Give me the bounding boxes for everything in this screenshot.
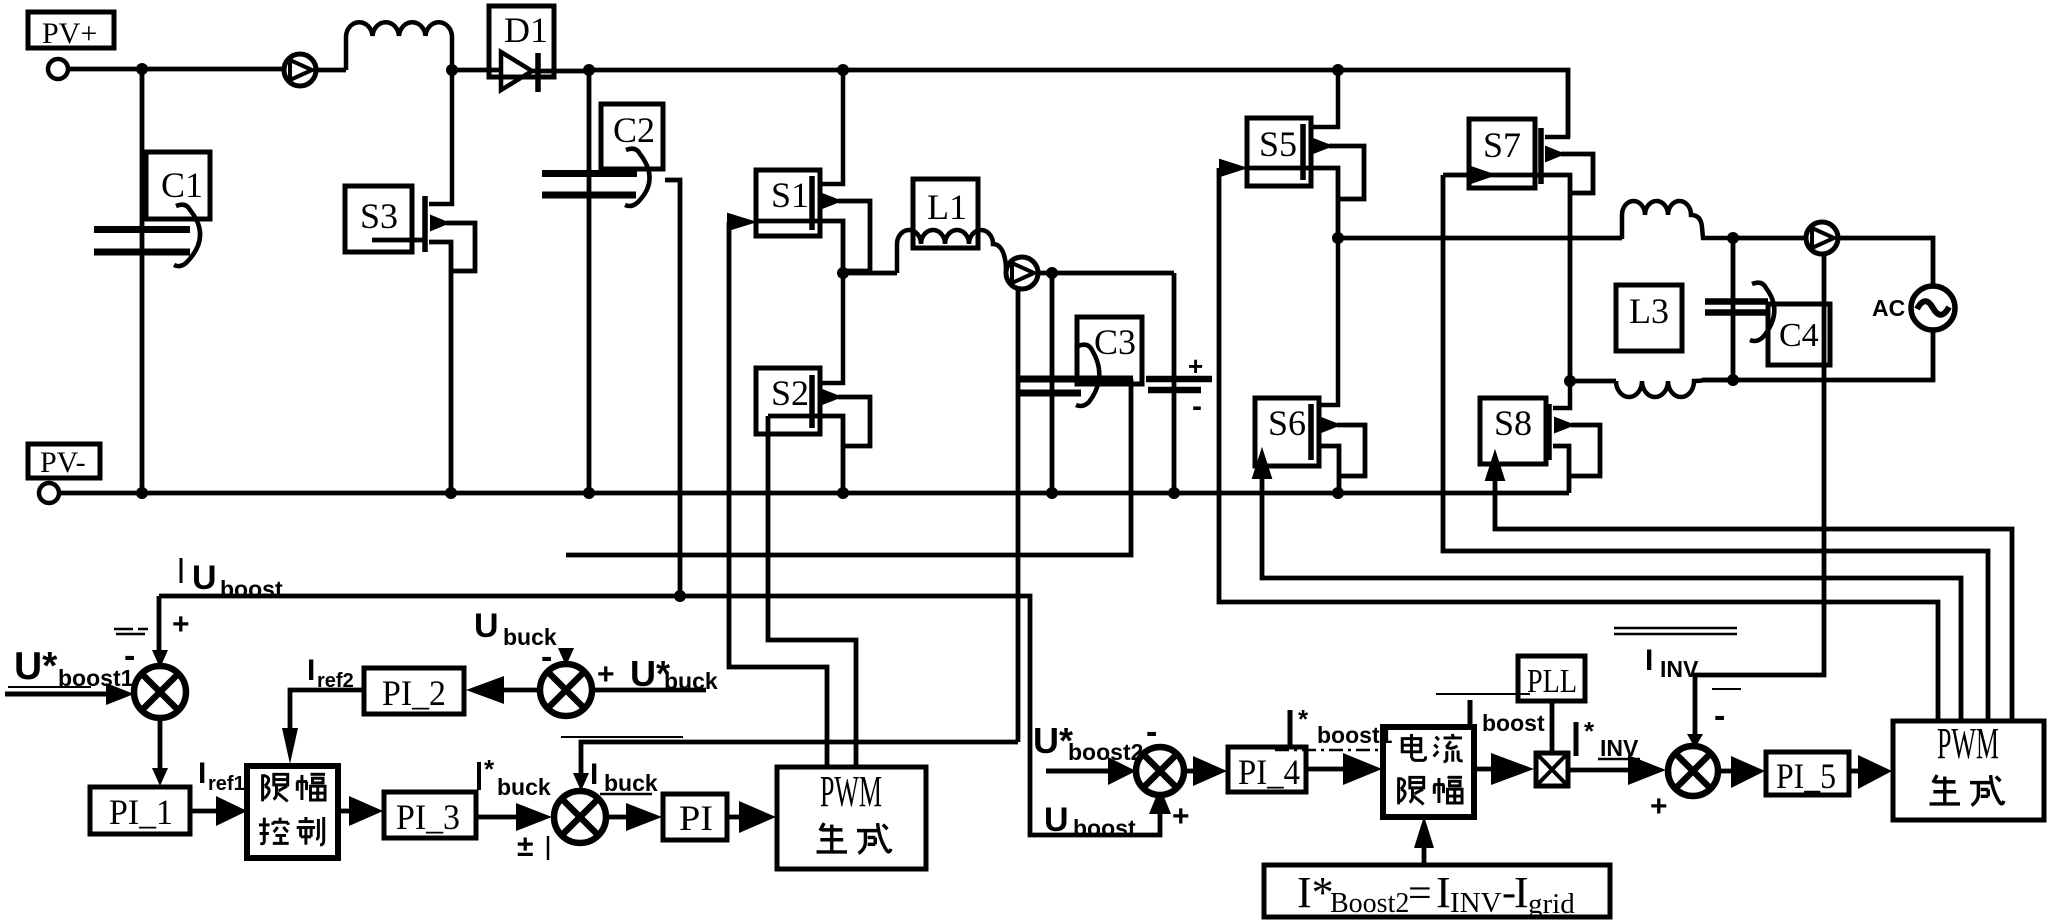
svg-text:PI_4: PI_4 (1238, 752, 1300, 792)
summing junction sum1 (134, 666, 186, 718)
arrow into PWM2 (1858, 755, 1892, 789)
label box D1 (489, 6, 554, 77)
svg-text:grid: grid (1528, 888, 1575, 920)
label U*_boost1 (8, 645, 134, 691)
wire top rail node C to S1 leg (589, 68, 843, 73)
label U*_buck (630, 653, 718, 694)
block PWM1 generator (777, 767, 926, 869)
noise dashes above sum1 (114, 629, 148, 634)
arrow into current limiter (1343, 753, 1382, 785)
wire PLL to multiplier (1550, 701, 1555, 753)
label box C3 (1077, 317, 1142, 384)
arrow into limiter top (282, 728, 298, 764)
noise line above I_buck wire (561, 736, 683, 738)
svg-text:PV+: PV+ (42, 17, 97, 50)
gate wire of S2 to PWM (768, 416, 856, 767)
svg-text:PI: PI (679, 798, 713, 838)
wire top rail to S7 leg corner (1338, 70, 1568, 137)
wire sum3 to PI (606, 815, 628, 820)
svg-text:=: = (1408, 871, 1432, 917)
wire PI to PWM1 (727, 815, 740, 820)
wire CT3 to AC corner (1838, 238, 1933, 286)
label box C4 (1768, 304, 1830, 365)
svg-text:-: - (1192, 390, 1202, 423)
label I_ref1 (198, 757, 245, 795)
multiplier box (1536, 753, 1568, 786)
block PI_4 (1228, 747, 1306, 792)
wire sum4 to PI_4 (1184, 769, 1196, 774)
transistor S2 (812, 273, 870, 493)
svg-text:+: + (1188, 351, 1203, 381)
node A junction dot (136, 63, 148, 75)
arrow into sum5 (1628, 755, 1666, 785)
svg-text:I: I (1645, 644, 1653, 677)
transistor S5 (1303, 70, 1364, 238)
wire current limiter to multiplier (1474, 767, 1492, 772)
summing junction sum5 (1668, 746, 1718, 796)
svg-text:U: U (1044, 801, 1069, 839)
gate arrow into S1 (728, 214, 827, 767)
label U*_boost2 (1033, 720, 1143, 765)
svg-text:S8: S8 (1494, 403, 1532, 443)
svg-text:ref1: ref1 (208, 773, 245, 795)
wire equation box to current limiter (1422, 846, 1427, 865)
equation box I*Boost2 (1264, 865, 1610, 920)
transistor S7 (1541, 70, 1593, 381)
inductor L2 (boost) (346, 22, 452, 70)
wire node A to current sensor (142, 67, 284, 72)
svg-text:Boost2: Boost2 (1330, 888, 1409, 919)
svg-text:+: + (597, 658, 615, 691)
label I_boost (1436, 694, 1545, 736)
label I*_boost1 (1275, 704, 1393, 750)
svg-text:INV: INV (1660, 656, 1699, 682)
label I_INV (1614, 628, 1741, 689)
wire PI_1 to limiter (190, 809, 218, 814)
wire sum1 to PI_1 (158, 718, 163, 770)
block PI_5 (1766, 752, 1849, 796)
svg-text:S1: S1 (771, 175, 809, 215)
svg-text:S6: S6 (1268, 403, 1306, 443)
arrow setpoint into sum1 (106, 683, 134, 705)
node N junction dot (S6 source on rail) (1332, 487, 1344, 499)
gate arrow into S6 (1253, 450, 1961, 721)
gate arrow into S7 (1443, 166, 1988, 721)
wire inverter right output node O to L3 lower (1570, 379, 1616, 384)
wire U_boost feedback line (159, 596, 1160, 835)
svg-text:I: I (307, 654, 315, 687)
block PI_2 (364, 668, 464, 714)
svg-text:C2: C2 (613, 110, 655, 150)
node S3-source junction dot (445, 487, 457, 499)
leader arc for C4 (1750, 283, 1774, 341)
svg-text:PWM: PWM (1937, 719, 1999, 768)
node K junction dot (C2 on rail) (583, 487, 595, 499)
node J junction dot (C1 on rail) (136, 487, 148, 499)
wire sum5 to PI_5 (1718, 769, 1732, 774)
terminal PV+ label box (28, 12, 114, 50)
svg-text:I: I (1514, 868, 1529, 917)
label box C1 (146, 152, 210, 219)
summing junction sum2 (540, 664, 592, 716)
svg-text:+: + (172, 608, 190, 641)
wire PV+ to node A (68, 67, 142, 72)
block current limiter 电流限幅 (1383, 727, 1474, 817)
arrow equation into current limiter (1414, 816, 1434, 848)
svg-text:C4: C4 (1779, 317, 1819, 354)
svg-text:S7: S7 (1483, 125, 1521, 165)
svg-text:buck: buck (497, 774, 551, 800)
node O junction dot (S7/S8 midpoint) (1564, 375, 1576, 387)
svg-text:I: I (590, 758, 598, 791)
svg-text:±: ± (517, 830, 533, 863)
arrow into PI_3 (349, 796, 383, 826)
terminal PV+ circle (48, 59, 68, 79)
label I_buck (590, 758, 658, 796)
capacitor C3 branch wire (1050, 273, 1055, 493)
svg-text:I: I (1436, 868, 1451, 917)
svg-text:PWM: PWM (820, 767, 882, 816)
wire node Q to lower rail end (1703, 378, 1733, 383)
leader arc for C2 (625, 149, 650, 206)
node L junction dot (top rail / S5 leg) (1332, 64, 1344, 76)
terminal PV- circle (39, 483, 59, 503)
switch S3 label box (345, 186, 412, 252)
wire I_buck sense down from CT2 (1016, 288, 1021, 742)
svg-text:boost: boost (220, 576, 283, 602)
svg-text:C3: C3 (1094, 322, 1136, 362)
wire setpoint into sum2 (592, 688, 706, 693)
node I junction dot (C5 on rail) (1168, 487, 1180, 499)
wire node E to L1 (843, 271, 897, 276)
switch S1 label box (756, 170, 820, 236)
current sensor CT3 (1806, 222, 1838, 254)
svg-text:PI_1: PI_1 (109, 792, 173, 832)
capacitor C2 plates (542, 174, 637, 196)
svg-text:U: U (192, 559, 217, 597)
wire node B to diode D1 (452, 68, 501, 73)
node M junction dot (S5/S6 midpoint) (1332, 232, 1344, 244)
svg-text:PI_3: PI_3 (396, 797, 460, 837)
capacitor C4 branch wire (1731, 238, 1736, 380)
wire sum2 to PI_2 (502, 688, 540, 693)
node B junction dot (446, 64, 458, 76)
svg-text:boost: boost (1482, 710, 1545, 736)
block PI_1 (90, 787, 190, 834)
arrow into PI (626, 803, 662, 831)
wire PI_3 to sum3 (476, 815, 518, 820)
arrow U_boost into sum1 (152, 650, 168, 668)
wire sensor to boost inductor (316, 68, 346, 73)
label U_boost at sum4 (1044, 801, 1136, 841)
switch S5 label box (1247, 118, 1311, 186)
block PI (663, 794, 727, 840)
label plusminus at sum3 (517, 830, 548, 863)
wire AC bottom loop (1733, 330, 1933, 380)
node P junction dot (L3 upper / C4) (1727, 232, 1739, 244)
capacitor C1 branch wire (140, 69, 145, 493)
wire CT2 to node G and to bus cap branch (1037, 271, 1174, 276)
wire PI_5 to PWM2 (1849, 769, 1860, 774)
svg-text:L1: L1 (927, 187, 967, 227)
wire limiter to PI_3 (338, 809, 350, 814)
transistor S3 (372, 70, 475, 493)
svg-text:AC: AC (1872, 295, 1905, 321)
arrow U_boost into sum4 (1149, 787, 1171, 814)
terminal PV- label box (28, 444, 100, 479)
node C junction dot (583, 64, 595, 76)
inductor L3 upper (1622, 201, 1733, 239)
svg-text:PLL: PLL (1527, 663, 1577, 700)
svg-text:S2: S2 (771, 373, 809, 413)
switch S6 label box (1255, 398, 1319, 466)
inductor L1 (897, 230, 1006, 273)
transistor S8 (1549, 381, 1600, 493)
arrow into PI_1 (152, 768, 168, 786)
capacitor C2 branch wire (587, 70, 592, 493)
diode D1 (501, 52, 589, 92)
capacitor C3 plates (1020, 379, 1133, 393)
capacitor C1 plates (94, 230, 190, 253)
node F junction dot (S2 source on rail) (837, 487, 849, 499)
svg-text:PV-: PV- (40, 446, 86, 479)
svg-text:*: * (1298, 704, 1309, 734)
summing junction sum4 (1136, 747, 1184, 795)
wire setpoint into sum4 (1046, 769, 1110, 774)
summing junction sum3 (554, 791, 606, 843)
node E junction dot (S1/S2 midpoint) (837, 267, 849, 279)
label box L1 (913, 179, 978, 248)
wire I_INV sense down from CT3 (1695, 253, 1824, 737)
wire multiplier to sum5 (1568, 768, 1630, 773)
wire top rail S1 leg to S5 leg (843, 68, 1338, 73)
arrow into multiplier (1491, 753, 1534, 785)
svg-text:-: - (541, 638, 552, 676)
node G junction dot (buck output node) (1046, 267, 1058, 279)
block PI_3 (384, 792, 476, 838)
wire node P to grid sensor (1733, 236, 1806, 241)
svg-text:INV: INV (1450, 887, 1502, 919)
svg-text:S3: S3 (360, 196, 398, 236)
node H junction dot (C3 on rail) (1046, 487, 1058, 499)
label I*_INV (1576, 716, 1640, 761)
inductor L3 lower (1616, 380, 1733, 397)
label box L3 (1616, 285, 1682, 351)
svg-text:boost: boost (1073, 815, 1136, 841)
wire U_buck tap from C3 (566, 379, 1131, 555)
leader arc for C3 (1076, 345, 1099, 406)
block limiter 限幅控制 (247, 766, 338, 858)
capacitor C4 plates (1705, 302, 1768, 313)
svg-text:PI_2: PI_2 (382, 673, 446, 713)
arrow I_buck into sum3 (573, 773, 589, 791)
svg-text:buck: buck (604, 770, 658, 796)
svg-text:D1: D1 (504, 10, 548, 50)
current sensor CT2 (1006, 257, 1038, 289)
current sensor CT1 (284, 54, 316, 86)
arrow into PI_4 (1193, 756, 1227, 786)
svg-text:+: + (1650, 790, 1668, 823)
arrow into PWM1 (739, 801, 776, 833)
transistor S6 (1311, 238, 1365, 493)
arrow into sum3 (516, 803, 552, 831)
capacitor C5 plates polarized (1146, 379, 1212, 390)
svg-text:+: + (1172, 800, 1190, 833)
wire I_buck sense into sum3 (581, 742, 1018, 775)
arrow into PI_2 (466, 676, 504, 704)
label U_buck (474, 607, 557, 650)
transistor S1 (812, 70, 870, 273)
arrow into PI_5 (1731, 756, 1765, 788)
gate arrow into S8 (1486, 452, 2012, 721)
svg-text:boost2: boost2 (1068, 739, 1143, 765)
wire inverter left output node M to L3 upper (1338, 236, 1622, 241)
svg-text:U*: U* (14, 645, 58, 688)
capacitor C5 (bus) branch wire (1172, 273, 1177, 493)
switch S2 label box (756, 368, 820, 434)
label I*_buck (479, 754, 551, 800)
wire PI_4 to current limiter (1306, 767, 1344, 772)
label I_ref2 (307, 654, 354, 692)
svg-text:*: * (1584, 716, 1595, 746)
wire bottom rail (59, 491, 1569, 496)
arrow I_INV into sum5 (1687, 734, 1703, 748)
leader arc for C1 (174, 205, 200, 266)
svg-text:S5: S5 (1259, 124, 1297, 164)
wire PI_2 output to limiter top (290, 690, 364, 730)
node Q junction dot (L3 lower / C4) (1727, 374, 1739, 386)
svg-text:PI_5: PI_5 (1776, 756, 1836, 796)
svg-text:U: U (474, 607, 499, 645)
svg-text:U*: U* (1033, 720, 1073, 761)
gate arrow into S5 (1219, 160, 1938, 721)
arrow into limiter (216, 796, 247, 826)
svg-text:C1: C1 (161, 165, 203, 205)
svg-text:-: - (1714, 697, 1725, 735)
block PLL (1518, 656, 1585, 701)
arrow U_buck into sum2 (558, 648, 574, 666)
wire setpoint into sum1 (5, 692, 112, 697)
wire U_boost tap from C2 (665, 180, 680, 596)
label box C2 (601, 104, 663, 169)
arrow setpoint into sum4 (1108, 757, 1136, 785)
block PWM2 generator (1893, 719, 2044, 820)
switch S8 label box (1480, 398, 1546, 464)
svg-text:L3: L3 (1629, 291, 1669, 331)
AC source circle (1911, 286, 1955, 330)
node R junction dot (U_boost tap) (674, 590, 686, 602)
svg-text:I*: I* (1297, 868, 1334, 917)
switch S7 label box (1469, 119, 1535, 188)
label U_boost (181, 558, 283, 602)
wire U_boost down to sum1 (157, 596, 162, 652)
node D junction dot (top rail / S1 leg) (837, 64, 849, 76)
svg-text:*: * (484, 754, 495, 784)
svg-text:I: I (198, 757, 206, 790)
